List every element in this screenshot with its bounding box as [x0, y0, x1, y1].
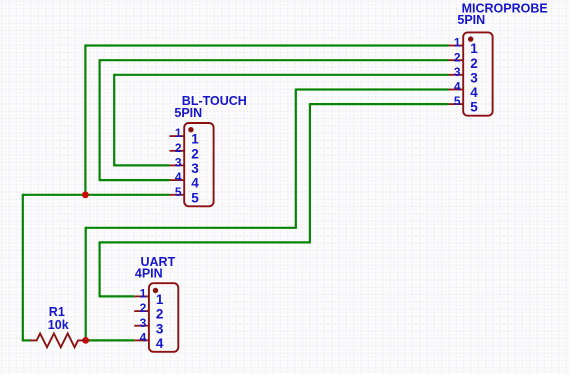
- label MICROPROBE: [462, 2, 548, 16]
- svg-text:3: 3: [140, 316, 147, 330]
- wire horizontal to BL-TOUCH pin4: [99, 179, 170, 181]
- junction node at x85 y195: [82, 191, 89, 198]
- svg-text:4: 4: [175, 170, 182, 184]
- connector BL-TOUCH 5PIN: [170, 123, 214, 206]
- svg-text:2: 2: [191, 146, 199, 161]
- pin numbers UART: [140, 287, 147, 345]
- label UART: [141, 255, 176, 269]
- pin names MICROPROBE: [470, 41, 478, 115]
- svg-text:3: 3: [470, 70, 478, 85]
- svg-text:2: 2: [470, 56, 478, 71]
- wire vertical x100 upper: [98, 59, 100, 180]
- wire junction to UART pin4: [86, 339, 135, 341]
- svg-text:2: 2: [156, 307, 164, 322]
- wire vertical x100 lower: [98, 241, 100, 296]
- label 5PIN (bl-touch): [174, 106, 202, 120]
- wire vertical x86 lower: [85, 227, 87, 341]
- wire vertical x296: [295, 89, 297, 228]
- svg-text:1: 1: [470, 41, 478, 56]
- svg-text:1: 1: [454, 36, 461, 50]
- wire horizontal to UART pin1: [99, 295, 135, 297]
- wire vertical far left x23: [22, 194, 24, 341]
- pin numbers MICROPROBE: [454, 36, 461, 109]
- wire to R1 left lead: [22, 339, 31, 341]
- svg-text:2: 2: [175, 141, 182, 155]
- wire horizontal y242: [100, 241, 311, 243]
- pin-1 marker dot BL-TOUCH: [188, 127, 193, 132]
- svg-text:4: 4: [470, 85, 478, 100]
- svg-text:1: 1: [156, 292, 164, 307]
- resistor R1: [30, 334, 86, 348]
- label BL-TOUCH: [182, 94, 247, 108]
- label 4PIN (uart): [135, 267, 163, 281]
- label 5PIN (microprobe): [457, 13, 485, 27]
- wire net MP4 horizontal: [296, 88, 449, 90]
- svg-text:4: 4: [454, 80, 461, 94]
- pin-1 marker dot UART: [153, 288, 158, 293]
- wire vertical x310: [309, 103, 311, 242]
- svg-text:5PIN: 5PIN: [457, 13, 485, 27]
- label 10k: [48, 318, 69, 332]
- svg-text:1: 1: [175, 126, 182, 140]
- svg-text:5: 5: [470, 100, 478, 115]
- connector UART 4PIN: [134, 283, 178, 352]
- svg-text:4: 4: [140, 331, 147, 345]
- svg-text:4: 4: [191, 176, 199, 191]
- svg-text:5PIN: 5PIN: [174, 106, 202, 120]
- svg-text:4: 4: [156, 336, 164, 351]
- wire vertical x114: [113, 74, 115, 166]
- svg-text:R1: R1: [49, 305, 65, 319]
- pin numbers BL-TOUCH: [175, 126, 182, 199]
- svg-text:5: 5: [175, 185, 182, 199]
- pin names UART: [156, 292, 164, 351]
- svg-text:5: 5: [191, 190, 199, 205]
- svg-text:10k: 10k: [48, 318, 69, 332]
- svg-text:3: 3: [191, 161, 199, 176]
- connector MICROPROBE 5PIN: [449, 32, 493, 115]
- wire horizontal y228: [86, 227, 297, 229]
- svg-text:3: 3: [454, 65, 461, 79]
- svg-text:5: 5: [454, 94, 461, 108]
- svg-text:1: 1: [191, 132, 199, 147]
- pin-1 marker dot MICROPROBE: [468, 36, 473, 41]
- svg-text:1: 1: [140, 287, 147, 301]
- svg-text:3: 3: [156, 321, 164, 336]
- wire horizontal to BL-TOUCH pin3: [113, 164, 169, 166]
- wire net MP3 horizontal: [114, 74, 448, 76]
- junction node at x86 y340: [82, 337, 89, 344]
- svg-text:2: 2: [140, 301, 147, 315]
- wire net MP2 horizontal: [100, 59, 449, 61]
- wire horizontal to BL-TOUCH pin5: [23, 194, 170, 196]
- label R1: [49, 305, 65, 319]
- wire net MP1/BLT5/R1 horizontal top: [85, 44, 448, 46]
- svg-text:2: 2: [454, 50, 461, 64]
- pin names BL-TOUCH: [191, 132, 199, 206]
- wire vertical left x85: [84, 45, 86, 195]
- svg-text:4PIN: 4PIN: [135, 267, 163, 281]
- svg-text:3: 3: [175, 156, 182, 170]
- wire net MP5 horizontal: [310, 103, 449, 105]
